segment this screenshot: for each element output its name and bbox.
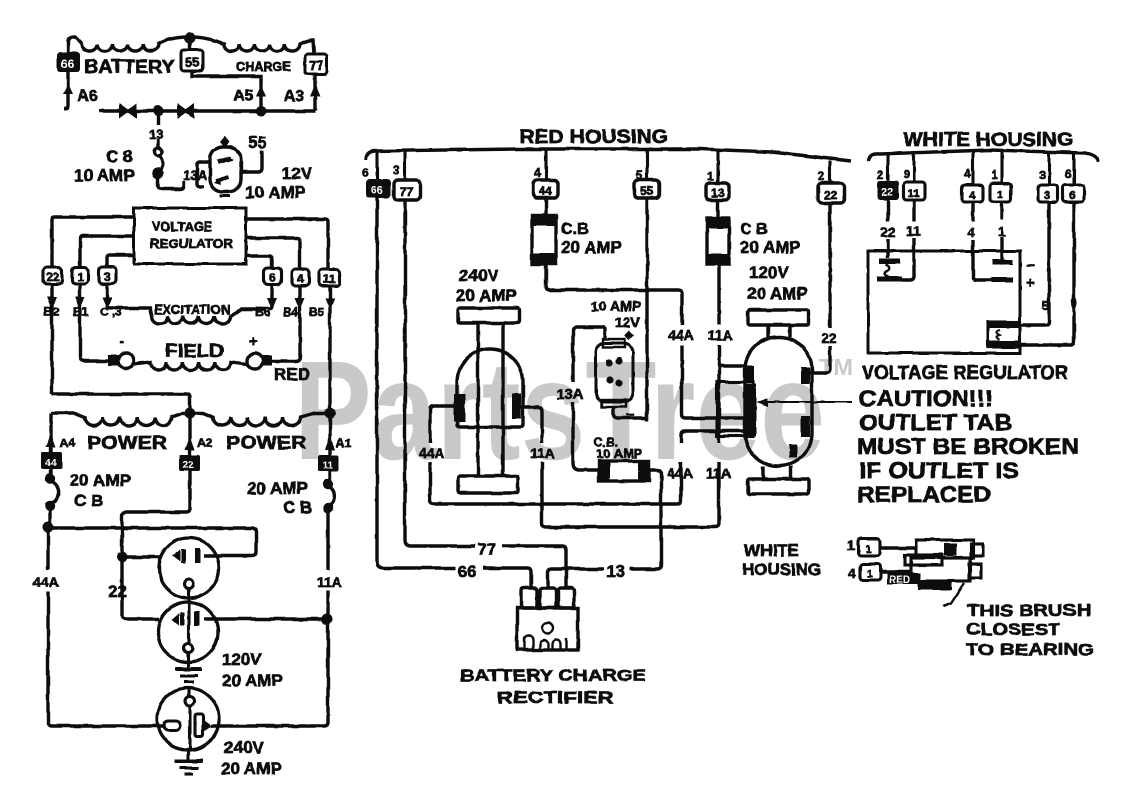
svg-text:A4: A4 (60, 436, 76, 450)
svg-text:POWER: POWER (226, 433, 306, 453)
svg-text:11A: 11A (317, 574, 342, 590)
pin 3 stub (403, 151, 406, 180)
wire 22 column to outlets (122, 471, 190, 619)
terminal 77 (red housing) (394, 180, 420, 200)
svg-text:10 AMP: 10 AMP (596, 446, 643, 461)
svg-text:–: – (1026, 257, 1034, 274)
meter minus (220, 195, 230, 198)
wire B1 with arrow (80, 284, 109, 361)
svg-text:6: 6 (1065, 167, 1072, 181)
node 11A junction at outlet (546, 366, 745, 527)
svg-text:2: 2 (818, 169, 825, 183)
meter pointer marks (218, 158, 231, 162)
svg-text:FIELD: FIELD (165, 341, 224, 361)
label 10 AMP 12V (charge meter) (591, 298, 641, 330)
svg-text:44A: 44A (419, 445, 445, 461)
wire B2 to power center tap (52, 394, 190, 413)
wire 66 run (483, 568, 531, 588)
svg-text:11: 11 (906, 223, 921, 239)
svg-text:44: 44 (45, 458, 57, 469)
label THIS BRUSH CLOSEST TO BEARING (966, 601, 1094, 659)
terminal 22 (VR) (43, 267, 62, 284)
node junction top coil (185, 33, 196, 44)
svg-text:66: 66 (371, 185, 383, 197)
svg-text:1: 1 (997, 189, 1003, 201)
wire 22 into VR (886, 200, 889, 258)
svg-text:77: 77 (400, 185, 414, 199)
wire 44A upper run (546, 264, 746, 418)
pin 6 stub (375, 152, 378, 179)
svg-text:TO BEARING: TO BEARING (966, 640, 1094, 659)
wire brush 1 (880, 546, 916, 549)
pin 6 stub (white) (1072, 153, 1075, 185)
svg-text:20 AMP: 20 AMP (247, 479, 308, 498)
terminal 66 (red housing) (366, 179, 391, 198)
arrow A3 (310, 85, 320, 97)
svg-text:22: 22 (881, 187, 893, 199)
wire 11A upper run (717, 264, 720, 366)
svg-text:1: 1 (847, 537, 855, 553)
pin 1 stub (716, 150, 719, 183)
svg-text:11A: 11A (530, 445, 555, 461)
svg-text:20 AMP: 20 AMP (70, 471, 131, 490)
ammeter 12V 10AMP (197, 136, 262, 196)
svg-text:240V: 240V (224, 738, 264, 757)
terminal 22 (A2 connector) (179, 455, 200, 471)
svg-text:20 AMP: 20 AMP (561, 238, 622, 257)
wire B5 with arrow (328, 286, 331, 413)
svg-text:A5: A5 (233, 88, 254, 105)
svg-text:–: – (626, 406, 634, 423)
meter body (210, 147, 241, 192)
svg-text:20 AMP: 20 AMP (740, 238, 801, 257)
terminal 22 (red housing) (818, 183, 844, 203)
svg-text:10 AMP: 10 AMP (74, 166, 135, 185)
field terminal minus (118, 353, 134, 369)
svg-text:4: 4 (969, 190, 976, 202)
svg-text:C B: C B (740, 221, 768, 238)
svg-text:1: 1 (867, 568, 873, 580)
wire VR to terminal 6 (246, 256, 272, 268)
brush holder assembly (905, 540, 983, 590)
field terminal plus (247, 353, 263, 369)
svg-text:44: 44 (539, 184, 553, 198)
wire 11 into VR (902, 200, 914, 280)
svg-text:CLOSEST: CLOSEST (966, 620, 1061, 639)
svg-text:REPLACED: REPLACED (857, 482, 991, 507)
terminal 77 (charge) (305, 54, 327, 74)
svg-text:RECTIFIER: RECTIFIER (497, 688, 614, 707)
wire 3 column down (1020, 202, 1049, 325)
wire A4 with arrow (46, 413, 335, 455)
svg-text:B1: B1 (73, 305, 89, 319)
VR connector block (987, 321, 1021, 348)
wire C3 with arrow (107, 284, 152, 316)
svg-text:13A: 13A (183, 168, 207, 183)
label 20 AMP CB right (247, 479, 312, 517)
terminal 11 (white housing) (904, 182, 925, 200)
svg-text:66: 66 (458, 562, 477, 581)
wire 11A to duplex outlet (719, 364, 745, 367)
brush terminal 4 (lower) (848, 564, 881, 581)
label BATTERY CHARGE RECTIFIER (460, 666, 646, 707)
svg-text:MUST BE BROKEN: MUST BE BROKEN (857, 434, 1079, 459)
terminal 4 (white housing) (962, 185, 983, 202)
svg-text:55: 55 (640, 184, 654, 198)
svg-text:WHITE: WHITE (744, 541, 799, 560)
svg-text:VOLTAGE REGULATOR: VOLTAGE REGULATOR (862, 363, 1068, 384)
terminal 44 (A4 connector) (41, 452, 62, 469)
wire dc bus (99, 109, 315, 112)
red housing bracket (366, 149, 851, 161)
battery charge rectifier BR1 (517, 588, 578, 650)
label 120V 20 AMP (duplex) (747, 263, 808, 303)
wire 6 column down (1020, 202, 1074, 345)
svg-text:4: 4 (534, 166, 541, 180)
wire 11A branch to outlet2 (204, 617, 327, 620)
wire brush 4 (881, 570, 911, 573)
pin 2 stub (white) (886, 155, 889, 181)
wire 44A from 240V outlet (lower run) (430, 406, 746, 504)
svg-text:BATTERY: BATTERY (84, 57, 175, 78)
svg-text:REGULATOR: REGULATOR (150, 236, 234, 251)
pin mark 6 (1071, 297, 1077, 309)
terminal 55 (red housing) (634, 180, 659, 198)
wire meter left hook (197, 162, 210, 187)
wire VR to terminal 3 (107, 255, 134, 267)
voltage regulator U2 (white housing) (868, 251, 1020, 353)
node A5 junction (256, 106, 266, 116)
winding POWER (left) (51, 413, 190, 426)
node A1 junction (325, 408, 336, 419)
VR plate symbol right (992, 262, 1013, 280)
wire 1 into VR (1000, 202, 1003, 260)
svg-text:1: 1 (998, 223, 1006, 239)
svg-text:C.B: C.B (561, 221, 589, 238)
meter plus diamond (220, 136, 230, 148)
wire 22 column (red) (810, 203, 830, 373)
fuse CB 20 AMP (13) (706, 217, 730, 265)
svg-text:22: 22 (183, 460, 195, 471)
winding POWER (right) (190, 413, 330, 426)
svg-text:77: 77 (309, 58, 323, 73)
svg-text:11: 11 (323, 272, 336, 286)
terminal 3 (VR) (99, 267, 116, 284)
circuit breaker CB1 20 AMP (left) (47, 469, 59, 527)
receptacle J1 120V 20A (upper) (159, 538, 219, 644)
label 240V 20 AMP (middle) (456, 266, 517, 305)
svg-text:B4: B4 (283, 305, 299, 319)
battery charge indicator 12V (596, 330, 634, 407)
terminal 22 (white housing) (877, 181, 899, 200)
label C.B. 10 AMP (594, 435, 643, 461)
svg-text:B5: B5 (309, 305, 325, 319)
svg-text:IF OUTLET IS: IF OUTLET IS (859, 458, 1019, 483)
svg-text:3: 3 (1044, 190, 1050, 202)
pin 4 stub (544, 149, 547, 180)
svg-text:13: 13 (149, 127, 163, 142)
terminal 6 (white housing) (1063, 185, 1084, 202)
voltage regulator U1 (left) (134, 208, 246, 264)
svg-text:20 AMP: 20 AMP (222, 671, 283, 690)
wire 13 drop (156, 111, 159, 148)
svg-text:22: 22 (880, 224, 896, 240)
svg-text:22: 22 (46, 270, 60, 284)
svg-text:44A: 44A (33, 574, 59, 590)
svg-text:12V: 12V (282, 164, 313, 183)
svg-text:240V: 240V (459, 266, 499, 285)
wire 11A column (211, 590, 328, 726)
wire A3 from terminal 77 (313, 74, 316, 111)
svg-text:1: 1 (991, 168, 998, 182)
svg-text:C ,3: C ,3 (100, 305, 122, 319)
svg-text:C B: C B (74, 491, 103, 510)
node 13 junction (153, 106, 164, 117)
terminal 13 (red housing) (706, 183, 729, 200)
wire 55 column (645, 198, 648, 421)
svg-text:EXCITATION: EXCITATION (154, 302, 230, 317)
pin 3 stub (white) (1047, 152, 1050, 185)
terminal 3 (white housing) (1038, 185, 1058, 202)
wire meter to 55 column (614, 407, 647, 418)
wire B4 with arrow (271, 286, 300, 361)
svg-text:44A: 44A (667, 465, 693, 481)
wire B2 with arrow (47, 284, 335, 413)
svg-text:CAUTION!!!: CAUTION!!! (859, 386, 993, 411)
label WHITE HOUSING (brush) (742, 541, 821, 579)
node A2 center tap junction (185, 408, 196, 419)
svg-text:9: 9 (903, 167, 910, 181)
pin 1 stub (white) (1000, 151, 1003, 183)
winding EXCITATION (152, 309, 266, 324)
svg-text:55: 55 (248, 133, 267, 152)
svg-text:13A: 13A (556, 386, 584, 403)
svg-text:44A: 44A (668, 327, 694, 343)
brush pointer line (943, 583, 964, 606)
wire 44 to CB (544, 198, 547, 215)
arrow A5 (256, 85, 266, 97)
terminal 44 (red housing) (533, 180, 558, 198)
wire 13 from fuse down (630, 470, 661, 569)
svg-text:3: 3 (393, 163, 400, 177)
svg-text:22: 22 (824, 188, 838, 202)
wire 55 stub from junction (188, 38, 191, 50)
svg-text:11A: 11A (706, 465, 731, 481)
label CB 10 AMP (74, 147, 135, 185)
terminal 11 (A1 connector) (318, 455, 339, 471)
svg-text:20 AMP: 20 AMP (747, 284, 808, 303)
label 20 AMP CB left (70, 471, 131, 510)
wire A2 with arrow (188, 413, 191, 455)
svg-text:RED HOUSING: RED HOUSING (519, 127, 668, 148)
receptacle J5 120V duplex (745, 310, 812, 494)
wire VR to terminal 11 (246, 219, 328, 269)
svg-text:C 8: C 8 (106, 147, 132, 166)
ground symbol (outlet2) (175, 652, 202, 682)
svg-text:10 AMP: 10 AMP (245, 183, 306, 202)
wire from terminal 55 to A5 (192, 71, 320, 111)
ground symbol (outlet3) (174, 750, 203, 774)
label C B 20 AMP (13) (740, 221, 801, 257)
svg-text:22: 22 (108, 582, 127, 601)
winding CHARGE (195, 37, 314, 54)
terminal 4 (VR) (292, 269, 309, 286)
svg-text:A2: A2 (197, 436, 213, 450)
svg-text:THIS BRUSH: THIS BRUSH (967, 601, 1091, 620)
svg-text:RED: RED (889, 575, 910, 586)
svg-text:A1: A1 (336, 436, 352, 450)
terminal 66 (battery) (57, 52, 80, 72)
svg-text:A6: A6 (77, 88, 98, 105)
wire 11A to 240V outlet (521, 407, 546, 527)
svg-text:120V: 120V (749, 263, 789, 282)
wire 66 column (377, 198, 456, 568)
wire VR to terminal 4 (246, 238, 300, 269)
pin 5 stub (645, 149, 648, 180)
diode D1 (119, 103, 137, 119)
wire B6 with arrow (268, 285, 272, 309)
svg-text:+: + (249, 333, 258, 350)
wire 4 into VR (973, 202, 992, 280)
brush terminal 1 (upper) (847, 537, 880, 556)
svg-text:6: 6 (269, 271, 276, 285)
svg-text:4: 4 (297, 272, 304, 286)
wire 13 to CB (716, 200, 719, 218)
svg-text:11: 11 (323, 460, 334, 471)
terminal 11 (VR) (319, 269, 340, 286)
wire A1 with arrow (328, 413, 331, 455)
terminal 1 (VR) (72, 267, 88, 284)
fuse CB 20 AMP (44) (531, 214, 557, 265)
svg-text:77: 77 (477, 540, 496, 559)
svg-text:HOUSING: HOUSING (742, 560, 821, 579)
node 22 junction (117, 552, 128, 563)
svg-text:POWER: POWER (87, 433, 167, 453)
svg-text:A3: A3 (284, 88, 305, 105)
svg-text:OUTLET TAB: OUTLET TAB (859, 410, 1012, 435)
svg-text:22: 22 (821, 330, 837, 346)
svg-text:1: 1 (707, 169, 714, 183)
svg-text:6: 6 (362, 166, 369, 180)
receptacle J4 240V twist-lock (454, 308, 523, 493)
svg-text:120V: 120V (222, 650, 262, 669)
label 120V 20AMP (222, 650, 283, 690)
svg-text:-: - (119, 333, 124, 350)
svg-text:4: 4 (848, 565, 856, 581)
label C.B 20 AMP (44) (561, 221, 622, 257)
svg-text:1: 1 (77, 270, 84, 284)
svg-text:BATTERY CHARGE: BATTERY CHARGE (460, 666, 646, 685)
wire 77 column (405, 200, 475, 546)
svg-text:5: 5 (1042, 298, 1049, 313)
svg-text:B2: B2 (44, 305, 60, 319)
svg-text:RED: RED (274, 365, 310, 384)
wire VR to terminal 1 (80, 236, 134, 267)
svg-text:3: 3 (1039, 168, 1046, 182)
pin 2 stub (828, 161, 831, 183)
svg-text:11: 11 (908, 188, 920, 200)
svg-text:20 AMP: 20 AMP (456, 286, 517, 305)
svg-text:+: + (1026, 274, 1035, 291)
wire 22 branch to outlet1 (122, 555, 162, 558)
svg-text:12V: 12V (615, 314, 641, 330)
svg-text:13: 13 (711, 186, 725, 200)
svg-text:WHITE HOUSING: WHITE HOUSING (903, 130, 1073, 151)
label RED (brush) (887, 573, 920, 586)
caution arrow (756, 398, 852, 407)
svg-text:4: 4 (964, 167, 971, 181)
wire VR to terminal 22 (52, 217, 328, 269)
label 240V 20AMP (221, 738, 282, 778)
svg-text:66: 66 (61, 57, 75, 71)
winding FIELD (108, 353, 272, 370)
svg-text:6: 6 (1069, 190, 1075, 202)
node 44A junction left (43, 522, 54, 533)
pin 4 stub (white) (971, 151, 974, 185)
svg-text:3: 3 (104, 270, 111, 284)
label CAUTION (857, 386, 1079, 507)
terminal 6 (VR) (264, 268, 281, 285)
wire 13A from meter (573, 327, 605, 470)
wire 55 to meter (241, 150, 262, 172)
wire top bus to outlet1 right (48, 528, 256, 556)
winding BATTERY (stator battery winding) (68, 37, 185, 52)
svg-text:10 AMP: 10 AMP (591, 298, 641, 314)
svg-text:1: 1 (865, 544, 871, 556)
node 11A junction (322, 614, 333, 625)
white housing bracket (869, 150, 1098, 162)
watermark PartsTree (294, 331, 853, 489)
svg-text:4: 4 (967, 224, 975, 240)
wire A6 stub with arrow (63, 72, 73, 109)
wire 44A column left (48, 527, 164, 726)
svg-text:20 AMP: 20 AMP (221, 759, 282, 778)
svg-text:CHARGE: CHARGE (236, 59, 291, 74)
receptacle J3 240V 20A (157, 688, 219, 750)
svg-text:11A: 11A (708, 327, 733, 343)
circuit breaker CB 10 AMP (battery) (154, 148, 184, 189)
wire 77 run (502, 546, 566, 588)
wire 13 to rectifier (548, 569, 604, 588)
circuit breaker CB2 20 AMP (right) (325, 470, 335, 570)
VR plate symbol left (877, 261, 902, 279)
svg-text:C B: C B (283, 498, 312, 517)
terminal 55 (181, 50, 203, 71)
svg-text:VOLTAGE: VOLTAGE (152, 219, 212, 234)
fuse CB 10 AMP (charge) (598, 460, 650, 482)
svg-text:13: 13 (606, 562, 625, 581)
svg-text:B6: B6 (255, 305, 271, 319)
outlet tab (717, 382, 753, 436)
diode D2 (177, 103, 194, 119)
svg-text:2: 2 (877, 168, 884, 182)
svg-text:TM: TM (819, 354, 853, 380)
terminal 1 (white housing) (990, 183, 1011, 202)
pin 9 stub (white) (912, 153, 915, 182)
receptacle J2 120V 20A (lower) (158, 602, 218, 662)
svg-text:55: 55 (185, 55, 199, 70)
